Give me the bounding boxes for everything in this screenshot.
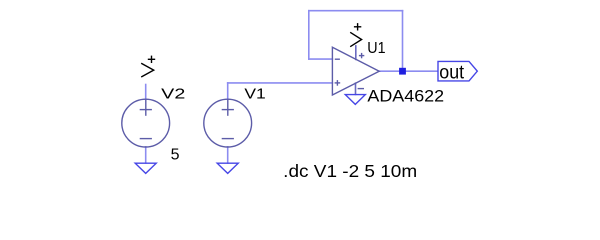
svg-text:5: 5 bbox=[171, 146, 180, 163]
svg-text:.dc V1 -2 5 10m: .dc V1 -2 5 10m bbox=[283, 161, 417, 181]
svg-text:V2: V2 bbox=[161, 86, 185, 103]
svg-text:U1: U1 bbox=[367, 40, 385, 57]
svg-text:V1: V1 bbox=[244, 86, 265, 103]
svg-text:ADA4622: ADA4622 bbox=[367, 87, 444, 105]
svg-text:out: out bbox=[439, 62, 464, 83]
